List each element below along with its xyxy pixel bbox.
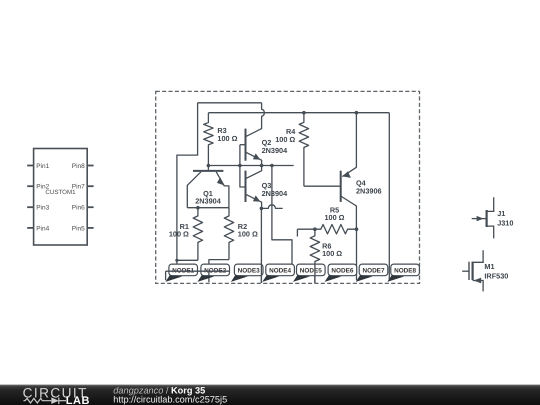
wire left long run to NODE1 xyxy=(177,103,198,260)
resistor R5 xyxy=(297,225,356,234)
svg-text:NODE7: NODE7 xyxy=(362,268,384,275)
wire NODE8 drop xyxy=(388,113,390,281)
transistor Q3 xyxy=(240,145,245,187)
wire NODE3 drop xyxy=(260,208,262,283)
pin stub Pin3 xyxy=(27,206,33,208)
M1 source lead xyxy=(473,281,484,292)
svg-text:100 Ω: 100 Ω xyxy=(275,135,295,144)
junction rail / NODE4 branch xyxy=(270,164,274,168)
transistor Q3 bar xyxy=(245,171,247,202)
svg-text:Pin1: Pin1 xyxy=(36,163,49,170)
node NODE6 flag xyxy=(328,264,357,276)
node tail NODE8 xyxy=(387,275,404,282)
pin stub Pin4 xyxy=(27,227,33,229)
J1 gate arrow xyxy=(477,216,484,221)
svg-text:Pin8: Pin8 xyxy=(72,163,85,170)
node tail NODE1 xyxy=(165,275,182,282)
node tail NODE7 xyxy=(356,275,373,282)
J1 source lead xyxy=(487,226,494,238)
node NODE5 flag xyxy=(297,264,326,276)
resistor R1 xyxy=(193,208,202,261)
resistor R2 xyxy=(224,208,233,260)
junction R3 bottom / Q1 base xyxy=(207,164,211,168)
node tail NODE3 xyxy=(231,275,248,282)
resistor R3 xyxy=(204,113,213,166)
svg-text:100 Ω: 100 Ω xyxy=(324,213,344,222)
MOSFET M1 xyxy=(462,250,483,291)
transistor Q2 xyxy=(240,144,245,146)
svg-text:NODE3: NODE3 xyxy=(238,268,260,275)
node tail NODE4 xyxy=(262,275,279,282)
wire NODE3 through drop xyxy=(260,264,262,283)
svg-text:CUSTOM1: CUSTOM1 xyxy=(45,189,76,196)
wire NODE2 staple xyxy=(209,260,229,265)
node tail NODE2 xyxy=(197,275,214,282)
junction Q3 emitter xyxy=(260,207,264,211)
transistor Q2 bar xyxy=(245,129,247,161)
arrow Q1 emitter xyxy=(217,177,224,185)
logo zigzag diode xyxy=(24,398,67,405)
M1 gate bar xyxy=(468,262,470,280)
junction Q2 emitter / Q3 collector xyxy=(260,164,264,168)
arrow Q4 emitter xyxy=(342,171,351,178)
IC body xyxy=(34,149,88,246)
M1 drain lead xyxy=(473,250,484,262)
wire Q3 emitter stub with hop xyxy=(261,205,282,209)
junction NODE1 staple xyxy=(175,259,178,262)
wire second rail xyxy=(208,112,389,114)
junction R4 top xyxy=(302,111,306,115)
svg-text:J310: J310 xyxy=(497,218,513,227)
footer bar xyxy=(0,385,540,405)
J1 drain lead xyxy=(487,197,494,211)
wire R1 R2 rail xyxy=(187,207,229,209)
svg-text:NODE5: NODE5 xyxy=(300,268,322,275)
wire R5 left stub xyxy=(296,229,298,236)
junction R1 top xyxy=(196,206,200,210)
transistor Q1 bar xyxy=(193,170,223,172)
wire NODE2 through drop xyxy=(208,271,210,282)
arrow Q3 emitter xyxy=(253,195,260,201)
transistor Q4 xyxy=(342,113,356,177)
J1 channel bar xyxy=(486,210,488,227)
wire NODE1 strike xyxy=(166,270,229,272)
wire NODE1 staple xyxy=(177,260,198,264)
component labels xyxy=(169,126,514,280)
svg-text:LAB: LAB xyxy=(66,395,90,405)
wire top rail xyxy=(198,102,262,104)
pin stub Pin5 xyxy=(87,227,93,229)
pin stub Pin2 xyxy=(27,185,33,187)
svg-text:J1: J1 xyxy=(497,209,505,218)
node NODE7 flag xyxy=(359,264,388,276)
svg-text:Pin4: Pin4 xyxy=(36,225,49,232)
pin stub Pin6 xyxy=(87,206,93,208)
svg-text:100 Ω: 100 Ω xyxy=(217,134,237,143)
svg-text:Pin3: Pin3 xyxy=(36,205,49,212)
svg-text:Pin5: Pin5 xyxy=(72,225,85,232)
M1 gate lead xyxy=(462,270,469,272)
wire node4 route xyxy=(272,166,292,267)
junction Q2 Q3 base tie xyxy=(238,164,242,168)
node flag bubbles xyxy=(169,264,420,276)
pin stub Pin7 xyxy=(87,185,93,187)
transistor Q4 bar xyxy=(340,171,342,202)
svg-text:IRF530: IRF530 xyxy=(484,271,508,280)
svg-text:2N3904: 2N3904 xyxy=(262,189,289,198)
svg-text:Pin6: Pin6 xyxy=(72,205,85,212)
svg-text:2N3906: 2N3906 xyxy=(356,186,382,195)
JFET J1 xyxy=(472,197,494,238)
svg-text:100 Ω: 100 Ω xyxy=(238,229,258,238)
node NODE8 flag xyxy=(391,264,420,276)
node NODE4 flag xyxy=(266,264,295,276)
svg-text:100 Ω: 100 Ω xyxy=(169,229,189,238)
node NODE2 flag xyxy=(201,264,230,276)
transistor bars xyxy=(193,129,341,202)
pin stub Pin1 xyxy=(27,165,33,167)
M1 source arrow xyxy=(474,278,482,284)
svg-text:M1: M1 xyxy=(484,262,494,271)
pin stub Pin8 xyxy=(87,165,93,167)
svg-text:100 Ω: 100 Ω xyxy=(322,249,342,258)
svg-text:http://circuitlab.com/c2575j5: http://circuitlab.com/c2575j5 xyxy=(113,395,227,405)
wire NODE7 drop xyxy=(356,229,358,280)
wire NODE5 through drop xyxy=(314,264,316,283)
arrow Q2 emitter xyxy=(253,153,260,159)
wire NODE1 tail drop xyxy=(165,271,167,280)
svg-text:NODE6: NODE6 xyxy=(331,268,353,275)
J1 gate lead xyxy=(472,218,486,220)
svg-text:NODE4: NODE4 xyxy=(269,268,291,275)
IC CUSTOM1 xyxy=(27,149,93,246)
resistor R6 xyxy=(310,229,319,283)
svg-text:2N3904: 2N3904 xyxy=(262,146,289,155)
resistor R4 xyxy=(299,113,308,187)
wire base rail xyxy=(208,165,293,167)
node tail NODE5 xyxy=(293,275,310,282)
junction Q4 emitter xyxy=(355,111,359,115)
transistor Q1 xyxy=(207,166,209,170)
node NODE3 flag xyxy=(234,264,263,276)
M1 channel bar xyxy=(472,262,474,280)
node tail NODE6 xyxy=(325,275,342,282)
dashed box xyxy=(156,91,420,283)
junction R5 R6 xyxy=(313,227,317,231)
node NODE1 flag xyxy=(169,264,198,276)
junction R5 right / Q4 collector xyxy=(355,227,359,231)
svg-text:2N3904: 2N3904 xyxy=(195,196,222,205)
svg-text:NODE8: NODE8 xyxy=(394,268,416,275)
